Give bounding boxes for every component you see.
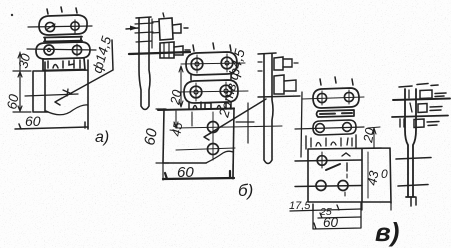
lug 1 holes xyxy=(317,93,326,102)
lug 2 holes xyxy=(316,124,325,133)
lug 1 centre line xyxy=(181,63,245,64)
svg-text:б): б) xyxy=(238,181,253,200)
leader line ф14,5 xyxy=(55,40,113,105)
strip side ticks xyxy=(258,62,262,71)
plate of b) left edge xyxy=(163,109,164,163)
extension lines to dimension xyxy=(163,163,233,180)
centre-line end bracket of v) xyxy=(301,92,302,157)
svg-text:43: 43 xyxy=(364,169,381,187)
leader swoosh xyxy=(326,164,340,170)
vertical centre dashes of v) holes xyxy=(322,152,347,196)
stud below xyxy=(236,103,254,143)
lug 1 of v) xyxy=(313,88,359,108)
lower row centre line xyxy=(295,186,362,187)
vertical dimension 60 of a) xyxy=(13,71,31,112)
svg-text:в): в) xyxy=(375,217,399,247)
plate of b) top edge xyxy=(158,109,234,111)
plate of b) right edge xyxy=(233,108,234,177)
second lug right hole xyxy=(72,45,81,54)
side view strip cap xyxy=(136,17,151,18)
axis line 1 xyxy=(393,99,450,101)
strip inner edge xyxy=(151,19,153,48)
ticks above lug 1 of b) xyxy=(193,43,231,51)
crimp teeth under lug 2 xyxy=(189,102,231,109)
svg-text:60: 60 xyxy=(4,93,21,111)
ticks above lug 1 of v) xyxy=(320,77,353,85)
bolt row mid xyxy=(418,104,427,113)
break-line arc in plate xyxy=(46,105,88,115)
crimp bar between lugs xyxy=(44,37,82,42)
strip body xyxy=(264,54,273,164)
scan speck top-left xyxy=(11,14,13,16)
small foot xyxy=(411,197,416,206)
connectors between lugs xyxy=(191,74,231,80)
bottom row marks xyxy=(400,119,404,127)
strip cap xyxy=(258,53,276,54)
bolt block 1 (side) xyxy=(159,18,173,40)
top lug left hole xyxy=(45,22,54,31)
bolt row 1 xyxy=(420,90,432,99)
extension lines below plate xyxy=(362,202,391,210)
lug 2 centre line xyxy=(295,127,364,129)
upper row centre line xyxy=(295,160,362,161)
bolt block 2 xyxy=(274,75,284,94)
plate of v) xyxy=(308,148,391,203)
upper hole of b) plate xyxy=(208,122,219,133)
lug 1 of b) xyxy=(186,52,237,75)
leader line 2 holes xyxy=(204,99,266,140)
svg-text:30: 30 xyxy=(15,51,33,69)
top lug centre line xyxy=(28,26,92,27)
top lug right hole xyxy=(71,22,79,30)
dimension line for 30 xyxy=(18,52,22,70)
svg-text:60: 60 xyxy=(323,215,339,230)
lower row holes xyxy=(316,181,326,191)
strip inner marks xyxy=(409,90,412,112)
top lug (stadium plate) xyxy=(39,15,87,35)
second lug left hole xyxy=(44,45,54,55)
pointing arrow xyxy=(126,28,138,29)
break-line arc of b) xyxy=(206,151,233,163)
upper row: centre target xyxy=(342,153,350,171)
side view strip xyxy=(139,18,150,110)
main plate of a) xyxy=(33,60,88,129)
axis line 2 xyxy=(392,116,448,118)
svg-text:60: 60 xyxy=(141,127,161,147)
crimp teeth under second lug xyxy=(43,58,85,71)
plate centre line + hole mark xyxy=(25,94,78,96)
lug 1 centre line xyxy=(302,97,364,99)
lower hole of b) plate xyxy=(208,144,219,155)
tick marks above top lug xyxy=(47,7,77,14)
top dashes xyxy=(399,84,438,88)
plate of b) bottom edge xyxy=(163,162,206,164)
svg-text:60: 60 xyxy=(25,113,41,129)
lug 2 of v) xyxy=(313,120,356,135)
bolt 2 axis line xyxy=(129,52,190,54)
lug 2 holes xyxy=(190,86,202,98)
svg-text:ф14,5: ф14,5 xyxy=(89,34,114,75)
axis line through bolt 2 xyxy=(258,96,300,97)
second lug (stadium plate) xyxy=(36,42,90,59)
svg-text:2отв.ф4,5: 2отв.ф4,5 xyxy=(215,47,248,120)
bolt block 1 xyxy=(274,57,283,70)
svg-text:0: 0 xyxy=(381,167,388,181)
svg-text:20: 20 xyxy=(360,126,378,145)
svg-text:а): а) xyxy=(95,129,109,146)
lug 1 holes xyxy=(191,58,203,70)
upper row: left hole xyxy=(317,156,327,166)
extension dashes below plate top xyxy=(191,112,193,126)
strip hatches xyxy=(135,23,153,42)
cross ticks on strip xyxy=(396,158,431,160)
crimp bar of v) xyxy=(317,110,355,117)
strip body xyxy=(405,89,416,197)
second lug centre line xyxy=(27,49,96,50)
crimp teeth of v) xyxy=(306,135,356,149)
lug 2 of b) xyxy=(184,80,238,103)
lug 2 centre line xyxy=(178,91,248,92)
vertical centre line through b) holes xyxy=(212,112,214,160)
bolt block 2 (side) xyxy=(160,42,174,58)
